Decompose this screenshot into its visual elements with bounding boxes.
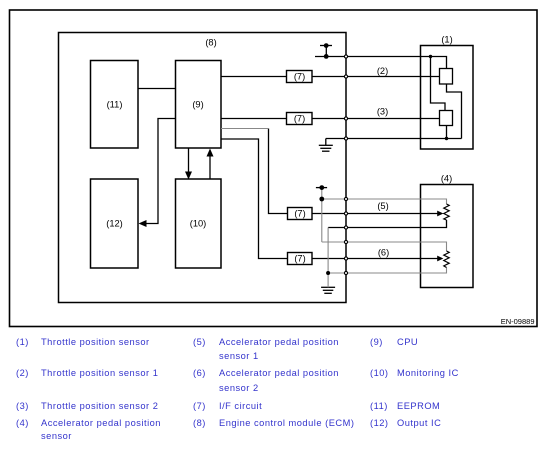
- svg-text:(11): (11): [107, 100, 123, 110]
- svg-text:(3): (3): [377, 107, 388, 117]
- svg-text:(1): (1): [441, 35, 452, 45]
- svg-text:(6): (6): [378, 248, 389, 258]
- svg-text:(8): (8): [205, 38, 216, 48]
- svg-text:(12): (12): [106, 219, 123, 229]
- svg-text:(9): (9): [192, 100, 203, 110]
- svg-text:(10): (10): [190, 219, 207, 229]
- svg-text:(5): (5): [377, 201, 388, 211]
- svg-text:(7): (7): [294, 209, 305, 219]
- svg-text:(7): (7): [294, 254, 305, 264]
- svg-text:(7): (7): [294, 114, 305, 124]
- svg-text:EN-09889: EN-09889: [501, 317, 535, 326]
- svg-text:(7): (7): [294, 72, 305, 82]
- svg-text:(4): (4): [441, 174, 452, 184]
- svg-text:(2): (2): [377, 66, 388, 76]
